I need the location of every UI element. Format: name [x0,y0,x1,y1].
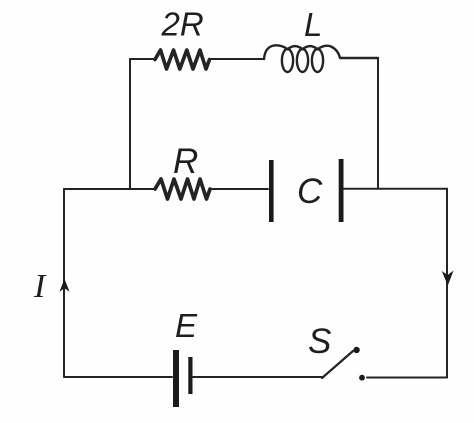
current arrow up on left wire [59,279,69,292]
switch S blade [322,351,353,378]
current arrow down on right wire [442,271,454,286]
svg-text:L: L [304,6,322,43]
inductor L [264,45,378,72]
wire top-left to 2R [130,58,155,60]
wire R to C [210,188,268,190]
wire bottom-left to battery [64,376,172,378]
svg-text:2R: 2R [161,6,204,43]
battery E short plate [188,357,192,394]
wire middle-left [64,188,155,190]
wire top branch right vertical [377,58,379,189]
battery E long plate [173,350,179,407]
switch S upper contact dot [353,347,359,353]
capacitor C right plate [339,159,344,222]
wire right outer vertical [446,189,448,378]
capacitor C left plate [269,160,274,222]
svg-text:S: S [308,322,331,361]
svg-text:E: E [175,307,198,344]
wire switch to right corner [367,377,447,379]
svg-text:C: C [297,172,323,211]
wire 2R to L [210,58,265,60]
switch S lower contact dot [359,375,365,381]
wire left outer vertical [63,189,65,377]
resistor 2R [155,50,210,69]
svg-text:R: R [173,142,198,181]
wire C to right vertical [344,188,448,190]
wire battery to switch [193,376,322,378]
wire top branch left vertical [129,59,131,189]
resistor R [155,179,210,199]
svg-text:I: I [33,268,47,305]
